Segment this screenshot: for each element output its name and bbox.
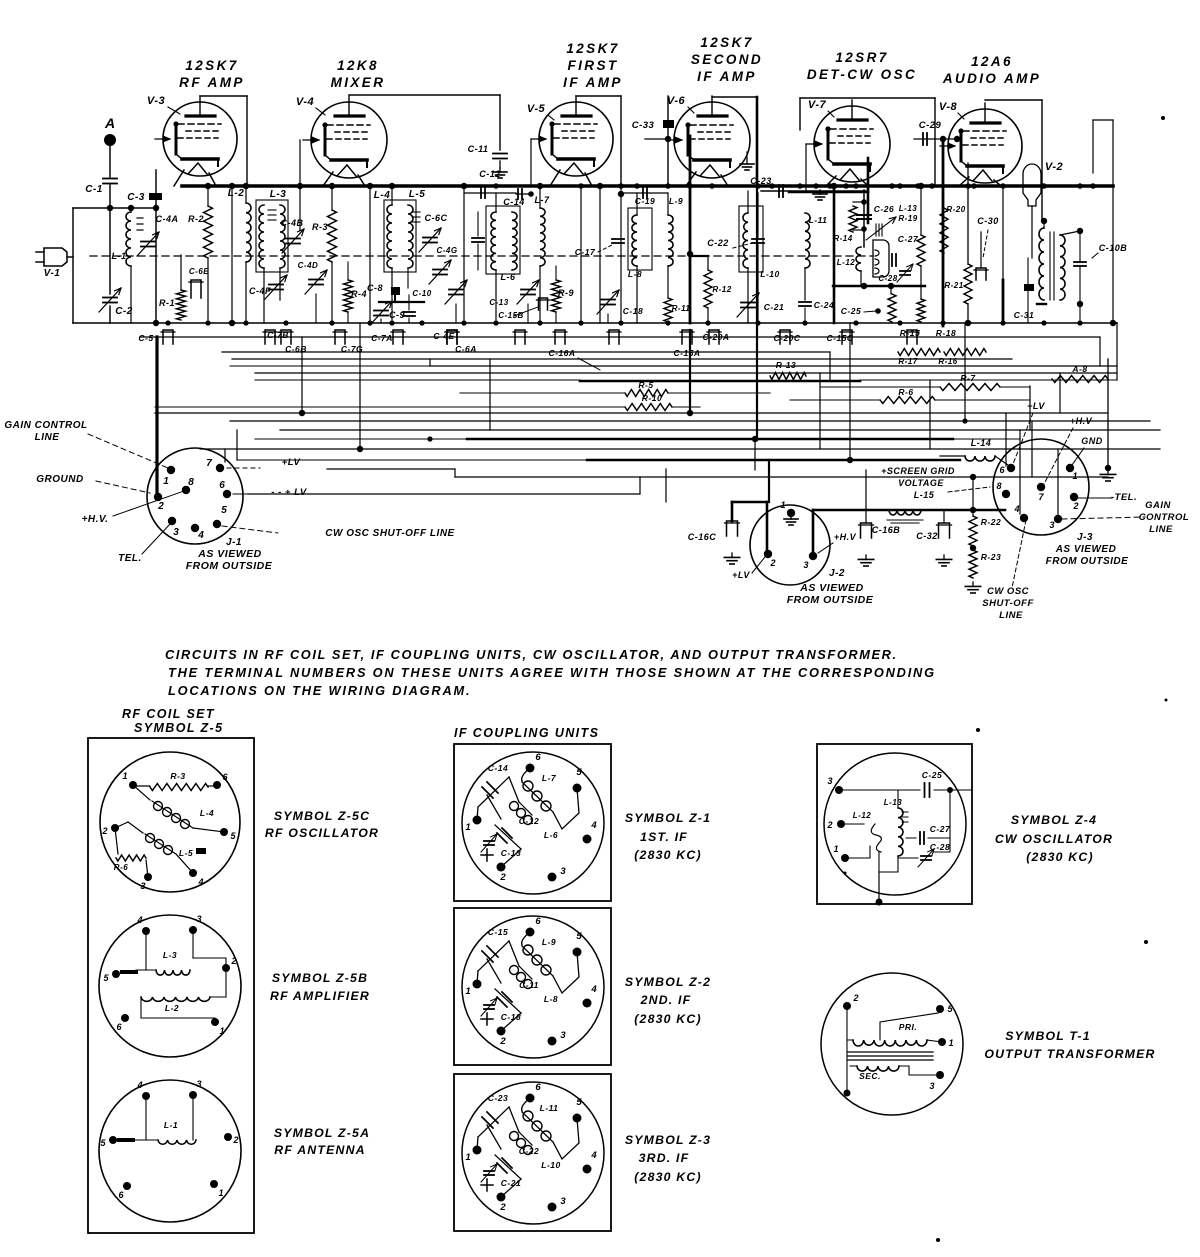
svg-text:LOCATIONS ON THE WIRING DIAGRA: LOCATIONS ON THE WIRING DIAGRAM. bbox=[168, 683, 471, 698]
svg-text:TEL.: TEL. bbox=[118, 553, 142, 564]
svg-text:GAIN: GAIN bbox=[1145, 500, 1171, 511]
svg-text:SYMBOL Z-5A: SYMBOL Z-5A bbox=[274, 1126, 370, 1140]
svg-text:2: 2 bbox=[499, 1202, 506, 1213]
svg-text:A: A bbox=[104, 115, 115, 131]
svg-text:6: 6 bbox=[535, 1082, 541, 1093]
svg-text:R-13: R-13 bbox=[776, 360, 796, 370]
svg-text:LINE: LINE bbox=[35, 432, 60, 443]
svg-text:6: 6 bbox=[219, 480, 225, 491]
svg-text:R-6: R-6 bbox=[898, 387, 913, 397]
svg-text:L-3: L-3 bbox=[163, 950, 177, 960]
svg-text:C-7B: C-7B bbox=[267, 330, 289, 340]
svg-text:L-8: L-8 bbox=[544, 994, 558, 1004]
svg-text:AS VIEWED: AS VIEWED bbox=[1055, 544, 1117, 555]
svg-text:C-31: C-31 bbox=[1014, 310, 1034, 320]
svg-text:GROUND: GROUND bbox=[36, 474, 83, 485]
svg-text:SYMBOL T-1: SYMBOL T-1 bbox=[1005, 1029, 1091, 1043]
svg-text:C-27: C-27 bbox=[898, 234, 919, 244]
svg-text:C-20C: C-20C bbox=[773, 333, 800, 343]
svg-text:3: 3 bbox=[560, 1196, 566, 1207]
svg-text:R-1: R-1 bbox=[159, 298, 175, 308]
svg-text:AUDIO AMP: AUDIO AMP bbox=[942, 71, 1041, 86]
svg-text:3: 3 bbox=[196, 1079, 201, 1089]
svg-text:3: 3 bbox=[929, 1081, 934, 1091]
svg-text:3RD. IF: 3RD. IF bbox=[639, 1151, 690, 1165]
svg-text:12SR7: 12SR7 bbox=[835, 50, 888, 65]
svg-text:C-4G: C-4G bbox=[436, 246, 457, 255]
svg-text:4: 4 bbox=[197, 530, 204, 541]
svg-text:FROM OUTSIDE: FROM OUTSIDE bbox=[1046, 556, 1129, 567]
svg-text:CW OSC: CW OSC bbox=[987, 586, 1029, 597]
svg-text:12A6: 12A6 bbox=[971, 54, 1013, 69]
svg-text:-TEL.: -TEL. bbox=[1111, 492, 1137, 503]
svg-text:THE TERMINAL NUMBERS ON THESE: THE TERMINAL NUMBERS ON THESE UNITS AGRE… bbox=[168, 665, 936, 680]
svg-text:R-21: R-21 bbox=[944, 281, 963, 290]
svg-text:C-25: C-25 bbox=[841, 306, 861, 316]
svg-text:3: 3 bbox=[560, 866, 566, 877]
svg-text:2: 2 bbox=[769, 558, 775, 568]
svg-text:2: 2 bbox=[852, 993, 858, 1003]
svg-text:4: 4 bbox=[590, 984, 597, 995]
svg-text:C-10: C-10 bbox=[412, 289, 431, 298]
svg-text:C-19: C-19 bbox=[635, 196, 655, 206]
svg-text:CW OSC SHUT-OFF LINE: CW OSC SHUT-OFF LINE bbox=[325, 528, 454, 539]
svg-text:C-3: C-3 bbox=[127, 192, 145, 203]
svg-text:C-16C: C-16C bbox=[688, 532, 717, 542]
svg-text:- - + LV: - - + LV bbox=[271, 487, 307, 498]
svg-text:12SK7: 12SK7 bbox=[566, 41, 619, 56]
svg-text:V-8: V-8 bbox=[939, 101, 958, 113]
svg-text:+H.V: +H.V bbox=[834, 532, 857, 542]
svg-text:L-2: L-2 bbox=[165, 1003, 179, 1013]
svg-text:L-15: L-15 bbox=[914, 490, 935, 500]
svg-text:SYMBOL Z-4: SYMBOL Z-4 bbox=[1011, 813, 1097, 827]
svg-text:4: 4 bbox=[590, 1150, 597, 1161]
svg-text:V-7: V-7 bbox=[808, 99, 827, 111]
svg-text:2ND. IF: 2ND. IF bbox=[640, 993, 692, 1007]
svg-text:2: 2 bbox=[230, 956, 236, 966]
svg-text:R-23: R-23 bbox=[981, 552, 1001, 562]
svg-text:PRI.: PRI. bbox=[899, 1022, 918, 1032]
svg-text:L-5: L-5 bbox=[179, 848, 193, 858]
svg-text:1: 1 bbox=[465, 1152, 470, 1163]
svg-text:C-6E: C-6E bbox=[189, 267, 209, 276]
svg-text:1: 1 bbox=[465, 986, 470, 997]
svg-text:R-22: R-22 bbox=[981, 517, 1001, 527]
svg-text:RF OSCILLATOR: RF OSCILLATOR bbox=[265, 826, 379, 840]
svg-text:3: 3 bbox=[173, 527, 179, 538]
svg-text:1ST. IF: 1ST. IF bbox=[640, 830, 688, 844]
svg-text:C-17: C-17 bbox=[575, 247, 596, 257]
svg-text:1: 1 bbox=[833, 844, 838, 854]
svg-text:R-19: R-19 bbox=[898, 214, 917, 223]
svg-text:3: 3 bbox=[196, 914, 201, 924]
svg-text:5: 5 bbox=[576, 767, 582, 778]
svg-text:L-13: L-13 bbox=[899, 204, 918, 213]
svg-text:2: 2 bbox=[826, 820, 832, 830]
svg-text:3: 3 bbox=[803, 560, 808, 570]
svg-text:CONTROL: CONTROL bbox=[1139, 512, 1189, 523]
svg-text:V-5: V-5 bbox=[527, 103, 546, 115]
svg-text:C-21: C-21 bbox=[764, 302, 784, 312]
svg-text:2: 2 bbox=[101, 826, 107, 836]
svg-text:1: 1 bbox=[948, 1038, 953, 1048]
svg-text:R-2: R-2 bbox=[188, 214, 204, 224]
svg-text:C-4F: C-4F bbox=[249, 286, 271, 296]
svg-text:4: 4 bbox=[197, 877, 203, 887]
svg-text:2: 2 bbox=[157, 501, 164, 512]
svg-text:L-4: L-4 bbox=[374, 190, 391, 201]
svg-text:(2830 KC): (2830 KC) bbox=[634, 1170, 702, 1184]
svg-text:(2830 KC): (2830 KC) bbox=[634, 1012, 702, 1026]
svg-text:7: 7 bbox=[206, 458, 212, 469]
svg-text:V-4: V-4 bbox=[296, 96, 314, 108]
svg-text:L-12: L-12 bbox=[853, 811, 872, 820]
svg-text:SEC.: SEC. bbox=[859, 1071, 881, 1081]
svg-text:FROM OUTSIDE: FROM OUTSIDE bbox=[186, 560, 273, 572]
svg-text:L-1: L-1 bbox=[164, 1120, 178, 1130]
svg-text:C-23: C-23 bbox=[750, 176, 772, 186]
svg-text:L-4: L-4 bbox=[200, 808, 214, 818]
svg-text:L-9: L-9 bbox=[669, 196, 683, 206]
svg-text:4: 4 bbox=[136, 915, 142, 925]
svg-text:L-11: L-11 bbox=[809, 215, 828, 225]
svg-text:IF COUPLING UNITS: IF COUPLING UNITS bbox=[454, 726, 599, 740]
svg-text:GND: GND bbox=[1081, 436, 1103, 446]
svg-text:5: 5 bbox=[221, 505, 227, 516]
svg-text:1: 1 bbox=[218, 1188, 223, 1198]
svg-text:V-1: V-1 bbox=[44, 268, 61, 279]
svg-text:3: 3 bbox=[140, 881, 145, 891]
svg-text:R-3: R-3 bbox=[170, 771, 185, 781]
svg-text:5: 5 bbox=[576, 931, 582, 942]
svg-text:J-3: J-3 bbox=[1077, 532, 1093, 543]
svg-text:L-2: L-2 bbox=[228, 188, 245, 199]
svg-text:C-33: C-33 bbox=[632, 120, 655, 131]
svg-text:SECOND: SECOND bbox=[691, 52, 763, 67]
svg-text:5: 5 bbox=[576, 1097, 582, 1108]
svg-text:C-30: C-30 bbox=[977, 216, 999, 226]
svg-text:L-7: L-7 bbox=[535, 195, 550, 205]
svg-text:C-24: C-24 bbox=[814, 300, 834, 310]
svg-text:3: 3 bbox=[560, 1030, 566, 1041]
svg-text:R-6: R-6 bbox=[114, 863, 128, 872]
svg-text:C-8: C-8 bbox=[367, 283, 383, 293]
svg-text:(2830 KC): (2830 KC) bbox=[634, 848, 702, 862]
svg-text:1: 1 bbox=[1072, 471, 1077, 481]
svg-text:R-10: R-10 bbox=[642, 393, 662, 403]
svg-text:R-20: R-20 bbox=[946, 205, 965, 214]
svg-text:LINE: LINE bbox=[1149, 524, 1173, 535]
svg-text:R-9: R-9 bbox=[558, 288, 574, 298]
svg-text:CIRCUITS IN RF COIL SET, IF CO: CIRCUITS IN RF COIL SET, IF COUPLING UNI… bbox=[165, 647, 898, 662]
svg-text:R-4: R-4 bbox=[351, 289, 367, 299]
svg-text:1: 1 bbox=[465, 822, 470, 833]
svg-text:C-26: C-26 bbox=[874, 204, 894, 214]
svg-text:SHUT-OFF: SHUT-OFF bbox=[982, 598, 1034, 609]
svg-text:6: 6 bbox=[535, 752, 541, 763]
svg-text:C-2: C-2 bbox=[115, 306, 133, 317]
svg-text:C-22: C-22 bbox=[707, 238, 729, 248]
svg-text:(2830 KC): (2830 KC) bbox=[1026, 850, 1094, 864]
svg-text:2: 2 bbox=[1072, 501, 1078, 511]
svg-text:C-15B: C-15B bbox=[498, 311, 524, 320]
svg-text:6: 6 bbox=[535, 916, 541, 927]
svg-text:LINE: LINE bbox=[999, 610, 1023, 621]
svg-text:RF ANTENNA: RF ANTENNA bbox=[274, 1143, 365, 1157]
svg-text:C-5: C-5 bbox=[138, 333, 153, 343]
svg-text:L-13: L-13 bbox=[884, 798, 903, 807]
svg-text:L-9: L-9 bbox=[542, 937, 556, 947]
svg-text:RF AMPLIFIER: RF AMPLIFIER bbox=[270, 989, 370, 1003]
svg-text:L-7: L-7 bbox=[542, 773, 557, 783]
svg-text:AS VIEWED: AS VIEWED bbox=[197, 548, 261, 560]
svg-text:C-6C: C-6C bbox=[424, 213, 447, 223]
svg-text:R-11: R-11 bbox=[672, 304, 691, 313]
svg-text:C-21: C-21 bbox=[501, 1178, 521, 1188]
svg-text:+H.V: +H.V bbox=[1070, 416, 1093, 426]
svg-text:1: 1 bbox=[122, 771, 127, 781]
svg-text:V-3: V-3 bbox=[147, 95, 165, 107]
svg-text:C-18: C-18 bbox=[501, 1012, 521, 1022]
svg-text:VOLTAGE: VOLTAGE bbox=[898, 478, 944, 488]
svg-text:2: 2 bbox=[499, 1036, 506, 1047]
svg-text:FIRST: FIRST bbox=[568, 58, 619, 73]
svg-text:C-1: C-1 bbox=[85, 184, 103, 195]
svg-text:R-12: R-12 bbox=[712, 285, 731, 294]
svg-text:4: 4 bbox=[590, 820, 597, 831]
svg-text:C-12: C-12 bbox=[479, 169, 501, 179]
svg-text:12SK7: 12SK7 bbox=[700, 35, 753, 50]
svg-text:+LV: +LV bbox=[732, 570, 750, 580]
svg-text:CW OSCILLATOR: CW OSCILLATOR bbox=[995, 832, 1113, 846]
svg-text:L-3: L-3 bbox=[270, 189, 287, 200]
svg-text:C-4A: C-4A bbox=[155, 214, 178, 224]
svg-text:2: 2 bbox=[232, 1135, 238, 1145]
svg-text:RF AMP: RF AMP bbox=[179, 75, 245, 90]
svg-text:C-13: C-13 bbox=[501, 848, 521, 858]
svg-text:AS VIEWED: AS VIEWED bbox=[799, 582, 863, 594]
svg-text:1: 1 bbox=[163, 476, 169, 487]
svg-text:SYMBOL Z-5B: SYMBOL Z-5B bbox=[272, 971, 368, 985]
svg-text:J-1: J-1 bbox=[226, 537, 242, 548]
svg-text:SYMBOL Z-2: SYMBOL Z-2 bbox=[625, 975, 711, 989]
svg-text:+H.V.: +H.V. bbox=[82, 514, 109, 525]
svg-text:DET-CW OSC: DET-CW OSC bbox=[807, 67, 917, 82]
svg-text:GAIN CONTROL: GAIN CONTROL bbox=[4, 420, 87, 431]
svg-text:8: 8 bbox=[188, 477, 194, 488]
svg-text:2: 2 bbox=[499, 872, 506, 883]
svg-text:R-5: R-5 bbox=[638, 380, 653, 390]
svg-text:C-28: C-28 bbox=[878, 274, 897, 283]
svg-text:1: 1 bbox=[780, 500, 785, 510]
svg-text:C-32: C-32 bbox=[916, 531, 938, 541]
svg-text:SYMBOL Z-3: SYMBOL Z-3 bbox=[625, 1133, 711, 1147]
svg-text:C-4D: C-4D bbox=[298, 261, 319, 270]
svg-text:+LV: +LV bbox=[1027, 401, 1045, 411]
svg-text:4: 4 bbox=[136, 1080, 142, 1090]
svg-text:C-25: C-25 bbox=[922, 770, 942, 780]
svg-text:C-14: C-14 bbox=[488, 763, 508, 773]
svg-text:J-2: J-2 bbox=[829, 568, 845, 579]
svg-text:C-13: C-13 bbox=[489, 298, 508, 307]
svg-text:C-29: C-29 bbox=[919, 120, 942, 131]
svg-text:L-14: L-14 bbox=[971, 438, 992, 448]
svg-text:+LV: +LV bbox=[282, 457, 301, 468]
svg-text:C-16A: C-16A bbox=[548, 348, 575, 358]
svg-text:C-16B: C-16B bbox=[872, 525, 901, 535]
svg-text:OUTPUT TRANSFORMER: OUTPUT TRANSFORMER bbox=[984, 1047, 1155, 1061]
svg-text:L-6: L-6 bbox=[544, 830, 558, 840]
svg-text:1: 1 bbox=[219, 1026, 224, 1036]
svg-text:FROM OUTSIDE: FROM OUTSIDE bbox=[787, 594, 874, 606]
svg-text:R-7: R-7 bbox=[960, 373, 976, 383]
svg-text:C-15A: C-15A bbox=[673, 348, 700, 358]
svg-text:R-16: R-16 bbox=[938, 357, 957, 366]
svg-text:R-3: R-3 bbox=[312, 222, 328, 232]
svg-text:8: 8 bbox=[996, 481, 1001, 491]
svg-text:V-2: V-2 bbox=[1045, 161, 1063, 173]
svg-text:C-27: C-27 bbox=[930, 824, 951, 834]
svg-text:IF AMP: IF AMP bbox=[563, 75, 623, 90]
svg-text:3: 3 bbox=[827, 776, 832, 786]
svg-text:+SCREEN GRID: +SCREEN GRID bbox=[881, 466, 955, 476]
svg-text:L-11: L-11 bbox=[540, 1103, 559, 1113]
svg-text:L-10: L-10 bbox=[541, 1160, 560, 1170]
svg-text:SYMBOL Z-1: SYMBOL Z-1 bbox=[625, 811, 711, 825]
svg-text:SYMBOL Z-5: SYMBOL Z-5 bbox=[134, 721, 223, 735]
svg-text:A-8: A-8 bbox=[1071, 364, 1087, 374]
svg-text:12K8: 12K8 bbox=[337, 58, 379, 73]
svg-text:L-5: L-5 bbox=[409, 189, 426, 200]
svg-text:3: 3 bbox=[1049, 520, 1054, 530]
svg-text:C-18: C-18 bbox=[623, 306, 643, 316]
svg-text:C-15: C-15 bbox=[488, 927, 508, 937]
svg-text:R-14: R-14 bbox=[833, 234, 852, 243]
svg-text:C-11: C-11 bbox=[468, 144, 489, 154]
svg-text:MIXER: MIXER bbox=[331, 75, 386, 90]
svg-text:RF COIL SET: RF COIL SET bbox=[122, 707, 215, 721]
svg-text:L-1: L-1 bbox=[112, 251, 127, 261]
svg-text:L-12: L-12 bbox=[837, 258, 856, 267]
svg-text:SYMBOL Z-5C: SYMBOL Z-5C bbox=[274, 809, 370, 823]
svg-text:4: 4 bbox=[1013, 504, 1019, 514]
svg-text:V-6: V-6 bbox=[667, 95, 686, 107]
svg-text:C-7A: C-7A bbox=[371, 333, 393, 343]
svg-text:IF AMP: IF AMP bbox=[697, 69, 757, 84]
svg-text:R-17: R-17 bbox=[898, 357, 917, 366]
svg-text:C-23: C-23 bbox=[488, 1093, 508, 1103]
svg-text:12SK7: 12SK7 bbox=[185, 58, 238, 73]
